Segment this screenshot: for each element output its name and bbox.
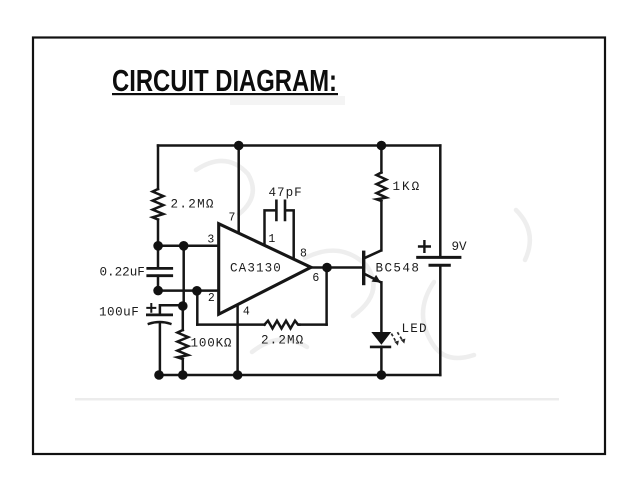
capacitor C3 47pF bracket left <box>265 210 275 245</box>
wire node C to R2 <box>182 306 185 330</box>
svg-text:2.2MΩ: 2.2MΩ <box>171 198 215 212</box>
node B feedback <box>192 286 202 296</box>
svg-text:9V: 9V <box>452 240 468 254</box>
wire feedback left vertical <box>196 291 199 325</box>
wire node A to C1 top <box>157 246 160 268</box>
resistor R2 100K <box>177 330 188 359</box>
svg-text:LED: LED <box>402 322 428 336</box>
capacitor C1 0.22uF <box>148 268 172 275</box>
svg-text:1KΩ: 1KΩ <box>393 180 422 194</box>
wire pin3 stub <box>158 245 219 248</box>
node A right <box>179 241 189 251</box>
svg-text:47pF: 47pF <box>269 186 303 200</box>
wire emitter to LED <box>380 282 383 332</box>
svg-text:1: 1 <box>268 233 275 246</box>
capacitor C2 100uF curved plate <box>149 322 171 324</box>
transistor Q1 BC548 <box>364 250 382 285</box>
output node pin6 <box>322 263 332 273</box>
wire battery column upper <box>439 146 442 257</box>
capacitor C3 plates <box>276 201 285 220</box>
resistor R4 1K <box>377 173 387 202</box>
wire pin4 vertical <box>236 305 239 375</box>
battery BT1 9V <box>416 240 461 265</box>
svg-text:100KΩ: 100KΩ <box>191 337 233 351</box>
wire 1K branch top <box>380 146 383 173</box>
node C 100uF <box>178 301 188 311</box>
wire top rail <box>158 144 440 147</box>
wire node A2 down to node C <box>182 246 185 306</box>
wire R2 to ground rail <box>182 359 185 375</box>
wire pin7 vertical <box>237 146 240 234</box>
svg-text:2: 2 <box>208 292 215 305</box>
wire output pin6 to base <box>311 266 362 269</box>
wire node C to C2 (gamma) <box>160 305 183 314</box>
junction top rail / pin7 <box>234 141 244 151</box>
junction dots <box>153 141 386 380</box>
wire pin2 stub <box>158 289 219 292</box>
junction top rail / R4 <box>377 141 387 151</box>
svg-text:2.2MΩ: 2.2MΩ <box>261 334 304 348</box>
svg-text:0.22uF: 0.22uF <box>100 266 145 280</box>
svg-text:8: 8 <box>300 248 307 261</box>
capacitor C3 bracket right <box>287 210 294 259</box>
node A left <box>153 241 163 251</box>
ground junction pin4 <box>233 370 243 380</box>
resistor R1 2.2M <box>153 189 164 220</box>
ground junction C2 <box>154 370 164 380</box>
svg-text:BC548: BC548 <box>376 262 421 276</box>
wire feedback horizontal right <box>300 323 327 326</box>
wire R1 to node A <box>157 220 160 246</box>
svg-text:CA3130: CA3130 <box>230 262 282 276</box>
plus mark C2 <box>147 304 155 312</box>
ground junction R2 <box>178 370 188 380</box>
wire feedback right vertical to output node <box>325 268 328 325</box>
wire left column upper <box>157 146 160 190</box>
wire battery column lower <box>439 266 442 375</box>
op-amp U1 CA3130 <box>219 224 311 315</box>
resistor R3 2.2M feedback <box>265 321 300 329</box>
wire LED to ground rail <box>380 347 383 375</box>
ground junction LED <box>377 370 387 380</box>
svg-text:4: 4 <box>243 306 250 319</box>
wire bottom ground rail <box>158 374 440 377</box>
LED D1 <box>370 332 406 347</box>
wire R4 to collector <box>380 201 383 250</box>
svg-text:CIRCUIT DIAGRAM:: CIRCUIT DIAGRAM: <box>112 64 337 98</box>
wire C2 to ground rail <box>159 323 162 375</box>
svg-text:3: 3 <box>207 233 214 246</box>
wire feedback horizontal left <box>197 323 264 326</box>
node B left <box>153 286 163 296</box>
svg-text:7: 7 <box>229 211 236 224</box>
svg-text:100uF: 100uF <box>99 305 139 319</box>
capacitor C2 100uF plus plate <box>147 313 171 316</box>
wire C1 bottom to node B <box>157 276 160 291</box>
svg-text:6: 6 <box>312 272 319 285</box>
